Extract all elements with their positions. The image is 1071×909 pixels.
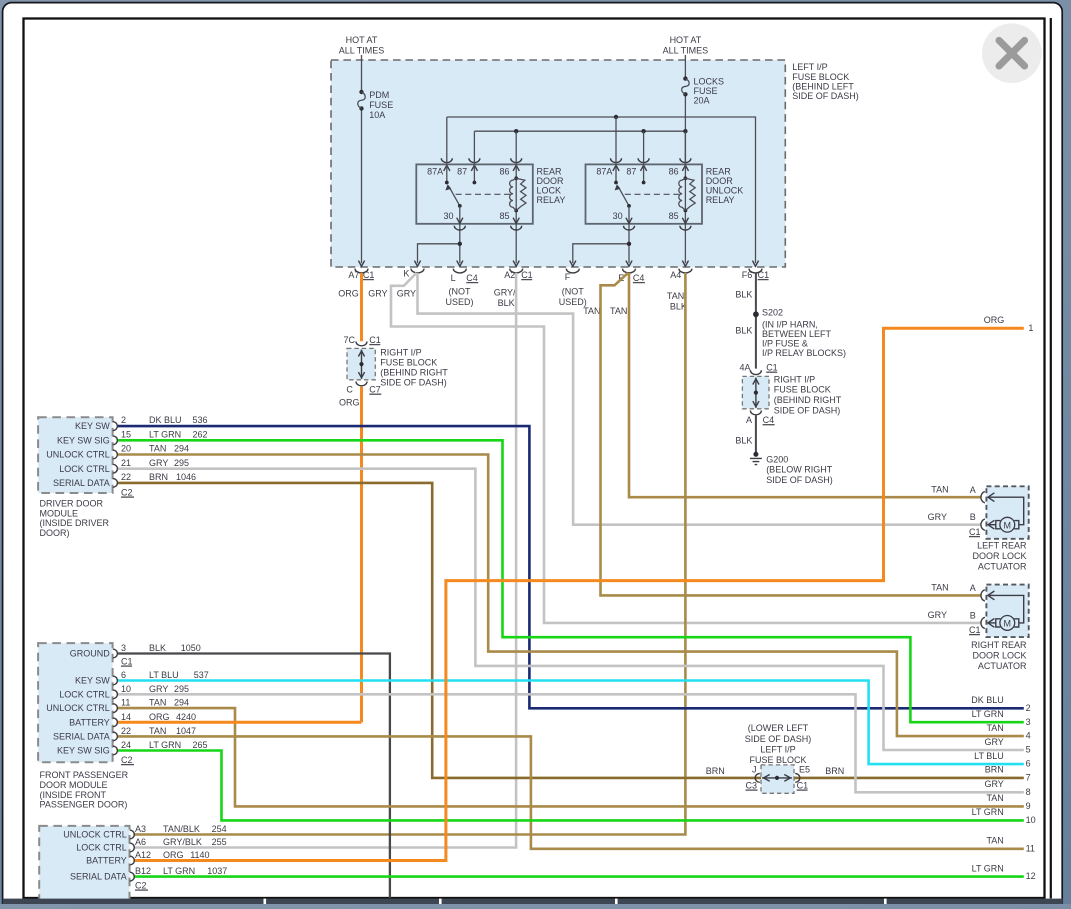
svg-text:(LOWER LEFT: (LOWER LEFT — [748, 723, 809, 733]
svg-text:FUSE BLOCK: FUSE BLOCK — [749, 755, 806, 765]
svg-text:(NOT: (NOT — [449, 286, 471, 296]
svg-text:21: 21 — [121, 458, 131, 468]
svg-text:BATTERY: BATTERY — [69, 717, 110, 727]
svg-text:LOCK: LOCK — [537, 186, 562, 196]
svg-text:REAR: REAR — [706, 167, 732, 177]
svg-text:(INSIDE DRIVER: (INSIDE DRIVER — [40, 518, 110, 528]
svg-text:GROUND: GROUND — [70, 649, 110, 659]
svg-text:C1: C1 — [121, 656, 133, 666]
svg-text:87: 87 — [457, 167, 467, 177]
svg-text:UNLOCK: UNLOCK — [706, 186, 744, 196]
svg-text:TAN: TAN — [986, 793, 1003, 803]
svg-text:ACTUATOR: ACTUATOR — [978, 661, 1027, 671]
svg-text:14: 14 — [121, 712, 131, 722]
svg-text:DOOR: DOOR — [706, 176, 734, 186]
svg-text:6: 6 — [1026, 759, 1031, 769]
svg-text:LEFT I/P: LEFT I/P — [760, 745, 795, 755]
svg-text:86: 86 — [669, 167, 679, 177]
svg-text:FUSE BLOCK: FUSE BLOCK — [774, 385, 831, 395]
svg-text:294: 294 — [174, 698, 189, 708]
svg-text:FUSE: FUSE — [694, 86, 718, 96]
svg-text:85: 85 — [499, 211, 509, 221]
svg-text:C4: C4 — [633, 273, 645, 283]
svg-text:BRN: BRN — [825, 766, 844, 776]
svg-text:A12: A12 — [135, 850, 151, 860]
svg-text:A2: A2 — [504, 270, 515, 280]
svg-text:C1: C1 — [969, 625, 981, 635]
svg-text:E5: E5 — [799, 764, 810, 774]
svg-text:A7: A7 — [348, 270, 359, 280]
svg-text:RIGHT REAR: RIGHT REAR — [971, 640, 1027, 650]
svg-text:LT GRN: LT GRN — [163, 866, 195, 876]
svg-text:3: 3 — [1026, 717, 1031, 727]
svg-text:7C: 7C — [343, 335, 355, 345]
svg-text:DOOR: DOOR — [537, 176, 565, 186]
svg-text:262: 262 — [193, 429, 208, 439]
svg-text:ACTUATOR: ACTUATOR — [978, 561, 1027, 571]
svg-text:TAN: TAN — [149, 444, 166, 454]
svg-text:BLK: BLK — [149, 643, 166, 653]
svg-text:BLK: BLK — [735, 290, 752, 300]
svg-text:ALL TIMES: ALL TIMES — [339, 45, 385, 55]
svg-text:M: M — [1004, 521, 1012, 531]
svg-text:FUSE BLOCK: FUSE BLOCK — [792, 72, 849, 82]
svg-text:UNLOCK CTRL: UNLOCK CTRL — [46, 450, 110, 460]
svg-text:5: 5 — [1026, 745, 1031, 755]
svg-text:10: 10 — [1026, 815, 1036, 825]
svg-text:20A: 20A — [694, 96, 710, 106]
svg-text:KEY SW: KEY SW — [75, 676, 110, 686]
svg-text:A: A — [970, 485, 976, 495]
svg-text:A4: A4 — [670, 270, 681, 280]
svg-text:10A: 10A — [369, 110, 385, 120]
svg-text:2: 2 — [1026, 703, 1031, 713]
svg-text:TAN: TAN — [583, 306, 600, 316]
svg-text:7: 7 — [1026, 773, 1031, 783]
svg-text:C1: C1 — [363, 270, 375, 280]
svg-text:TAN: TAN — [149, 698, 166, 708]
svg-text:C1: C1 — [369, 335, 381, 345]
svg-text:DRIVER DOOR: DRIVER DOOR — [40, 499, 104, 509]
svg-text:DK BLU: DK BLU — [971, 695, 1004, 705]
svg-text:A: A — [970, 583, 976, 593]
svg-text:C3: C3 — [746, 780, 758, 790]
svg-text:GRY: GRY — [368, 289, 387, 299]
svg-text:B: B — [970, 610, 976, 620]
svg-text:20: 20 — [121, 444, 131, 454]
svg-text:ORG: ORG — [163, 850, 184, 860]
svg-text:MODULE: MODULE — [40, 508, 79, 518]
svg-text:255: 255 — [212, 837, 227, 847]
svg-text:F: F — [565, 272, 571, 282]
svg-text:2: 2 — [121, 415, 126, 425]
svg-text:30: 30 — [443, 211, 453, 221]
svg-text:(INSIDE FRONT: (INSIDE FRONT — [40, 790, 107, 800]
svg-text:RELAY: RELAY — [537, 195, 566, 205]
svg-text:L: L — [451, 273, 456, 283]
svg-text:LT BLU: LT BLU — [149, 670, 179, 680]
svg-text:TAN: TAN — [931, 484, 948, 494]
svg-text:C1: C1 — [797, 780, 809, 790]
svg-text:KEY SW SIG: KEY SW SIG — [57, 435, 110, 445]
svg-text:BRN: BRN — [985, 765, 1004, 775]
svg-text:G200: G200 — [766, 454, 788, 464]
svg-text:FUSE: FUSE — [369, 100, 393, 110]
svg-text:B: B — [970, 512, 976, 522]
svg-text:87A: 87A — [427, 167, 443, 177]
svg-text:C4: C4 — [763, 415, 775, 425]
svg-text:TAN: TAN — [931, 583, 948, 593]
svg-text:1047: 1047 — [176, 726, 196, 736]
svg-text:PASSENGER DOOR): PASSENGER DOOR) — [40, 800, 128, 810]
svg-text:1050: 1050 — [181, 643, 201, 653]
svg-text:LEFT REAR: LEFT REAR — [977, 541, 1027, 551]
svg-text:DK BLU: DK BLU — [149, 415, 182, 425]
svg-text:1140: 1140 — [190, 850, 209, 860]
svg-text:UNLOCK CTRL: UNLOCK CTRL — [46, 703, 110, 713]
svg-text:4A: 4A — [739, 362, 750, 372]
svg-text:295: 295 — [174, 684, 189, 694]
svg-text:GRY: GRY — [984, 737, 1003, 747]
svg-text:TAN: TAN — [986, 723, 1003, 733]
svg-text:30: 30 — [613, 211, 623, 221]
svg-text:TAN: TAN — [986, 836, 1003, 846]
svg-text:TAN: TAN — [610, 306, 627, 316]
svg-text:85: 85 — [669, 211, 679, 221]
svg-text:LT GRN: LT GRN — [149, 740, 181, 750]
svg-text:24: 24 — [121, 740, 131, 750]
svg-text:11: 11 — [121, 698, 130, 708]
svg-text:SIDE OF DASH): SIDE OF DASH) — [774, 405, 841, 415]
svg-text:BLK: BLK — [735, 435, 752, 445]
svg-text:DOOR LOCK: DOOR LOCK — [972, 651, 1026, 661]
svg-text:C7: C7 — [369, 384, 381, 394]
svg-text:REAR: REAR — [537, 167, 563, 177]
svg-text:295: 295 — [174, 458, 189, 468]
svg-text:1: 1 — [1028, 323, 1033, 333]
svg-text:3: 3 — [121, 643, 126, 653]
svg-text:C1: C1 — [758, 270, 770, 280]
svg-text:SERIAL DATA: SERIAL DATA — [70, 872, 127, 882]
svg-text:11: 11 — [1026, 843, 1035, 853]
svg-text:K: K — [403, 268, 409, 278]
svg-text:LT GRN: LT GRN — [972, 863, 1004, 873]
svg-text:RELAY: RELAY — [706, 195, 735, 205]
svg-text:1037: 1037 — [207, 866, 227, 876]
svg-text:SERIAL DATA: SERIAL DATA — [53, 478, 110, 488]
svg-text:A: A — [746, 415, 752, 425]
svg-text:B12: B12 — [135, 866, 151, 876]
svg-text:(BELOW RIGHT: (BELOW RIGHT — [766, 465, 833, 475]
svg-text:8: 8 — [1026, 787, 1031, 797]
svg-text:9: 9 — [1026, 801, 1031, 811]
svg-text:SIDE OF DASH): SIDE OF DASH) — [792, 91, 859, 101]
svg-text:TAN: TAN — [149, 726, 166, 736]
svg-text:LEFT I/P: LEFT I/P — [792, 62, 827, 72]
svg-text:PDM: PDM — [369, 90, 389, 100]
svg-text:BLK: BLK — [735, 326, 752, 336]
svg-text:LOCKS: LOCKS — [694, 77, 725, 87]
svg-text:GRY: GRY — [984, 779, 1003, 789]
svg-text:SIDE OF DASH): SIDE OF DASH) — [766, 475, 833, 485]
svg-text:BRN: BRN — [149, 472, 168, 482]
svg-text:A3: A3 — [135, 824, 146, 834]
svg-text:DOOR): DOOR) — [40, 528, 70, 538]
svg-text:LT GRN: LT GRN — [972, 807, 1004, 817]
svg-text:BRN: BRN — [706, 766, 725, 776]
svg-text:15: 15 — [121, 429, 131, 439]
svg-text:S202: S202 — [762, 307, 783, 317]
svg-text:USED): USED) — [445, 297, 473, 307]
svg-text:GRY: GRY — [928, 610, 947, 620]
svg-text:87: 87 — [626, 167, 636, 177]
svg-text:(BEHIND RIGHT: (BEHIND RIGHT — [380, 368, 448, 378]
svg-text:GRY: GRY — [397, 289, 416, 299]
svg-text:1046: 1046 — [176, 472, 196, 482]
svg-text:4240: 4240 — [176, 712, 196, 722]
svg-text:ORG: ORG — [984, 315, 1005, 325]
svg-text:SERIAL DATA: SERIAL DATA — [53, 732, 110, 742]
svg-text:RIGHT I/P: RIGHT I/P — [774, 374, 815, 384]
svg-text:LOCK CTRL: LOCK CTRL — [76, 843, 127, 853]
svg-text:SIDE OF DASH): SIDE OF DASH) — [745, 734, 812, 744]
svg-text:C2: C2 — [121, 487, 133, 497]
svg-text:(BEHIND RIGHT: (BEHIND RIGHT — [774, 395, 842, 405]
svg-text:LOCK CTRL: LOCK CTRL — [59, 689, 110, 699]
svg-text:A6: A6 — [135, 837, 146, 847]
svg-text:C: C — [346, 384, 353, 394]
svg-text:HOT AT: HOT AT — [346, 35, 378, 45]
svg-text:254: 254 — [212, 824, 227, 834]
svg-text:GRY: GRY — [149, 684, 168, 694]
svg-text:KEY SW: KEY SW — [75, 421, 110, 431]
svg-text:10: 10 — [121, 684, 131, 694]
svg-text:GRY/BLK: GRY/BLK — [163, 837, 202, 847]
svg-text:F6: F6 — [742, 270, 753, 280]
svg-text:DOOR MODULE: DOOR MODULE — [40, 780, 108, 790]
svg-text:GRY/: GRY/ — [494, 287, 516, 297]
svg-text:KEY SW SIG: KEY SW SIG — [57, 746, 110, 756]
svg-text:RIGHT I/P: RIGHT I/P — [380, 347, 421, 357]
svg-text:C1: C1 — [766, 362, 778, 372]
svg-text:86: 86 — [499, 167, 509, 177]
svg-text:6: 6 — [121, 670, 126, 680]
svg-text:C2: C2 — [121, 755, 133, 765]
svg-text:DOOR LOCK: DOOR LOCK — [972, 551, 1026, 561]
svg-text:C2: C2 — [135, 880, 147, 890]
svg-text:GRY: GRY — [928, 512, 947, 522]
svg-text:LT GRN: LT GRN — [149, 429, 181, 439]
svg-text:12: 12 — [1026, 871, 1036, 881]
svg-text:I/P RELAY BLOCKS): I/P RELAY BLOCKS) — [762, 348, 846, 358]
svg-text:C1: C1 — [521, 270, 533, 280]
svg-text:22: 22 — [121, 472, 131, 482]
svg-text:537: 537 — [194, 670, 209, 680]
svg-text:(BEHIND LEFT: (BEHIND LEFT — [792, 81, 854, 91]
svg-text:87A: 87A — [596, 167, 612, 177]
svg-text:J: J — [752, 764, 757, 774]
svg-text:536: 536 — [193, 415, 208, 425]
svg-text:LT GRN: LT GRN — [972, 709, 1004, 719]
svg-text:ORG: ORG — [339, 397, 360, 407]
svg-text:HOT AT: HOT AT — [670, 35, 702, 45]
svg-text:FRONT PASSENGER: FRONT PASSENGER — [40, 770, 129, 780]
svg-text:LOCK CTRL: LOCK CTRL — [59, 464, 110, 474]
svg-text:C4: C4 — [466, 273, 478, 283]
svg-text:FUSE BLOCK: FUSE BLOCK — [380, 358, 437, 368]
svg-text:UNLOCK CTRL: UNLOCK CTRL — [63, 830, 127, 840]
svg-text:22: 22 — [121, 726, 131, 736]
svg-text:294: 294 — [174, 444, 189, 454]
svg-text:BATTERY: BATTERY — [86, 856, 127, 866]
svg-text:GRY: GRY — [149, 458, 168, 468]
svg-text:ORG: ORG — [149, 712, 170, 722]
svg-text:(NOT: (NOT — [562, 286, 584, 296]
svg-text:SIDE OF DASH): SIDE OF DASH) — [380, 378, 447, 388]
svg-text:4: 4 — [1026, 731, 1031, 741]
svg-text:BLK: BLK — [498, 298, 515, 308]
svg-text:TAN/BLK: TAN/BLK — [163, 824, 200, 834]
svg-text:M: M — [1004, 619, 1012, 629]
svg-text:265: 265 — [193, 740, 208, 750]
svg-text:LT BLU: LT BLU — [974, 751, 1004, 761]
svg-text:ALL TIMES: ALL TIMES — [663, 45, 709, 55]
svg-text:ORG: ORG — [338, 289, 359, 299]
svg-text:C1: C1 — [969, 527, 981, 537]
